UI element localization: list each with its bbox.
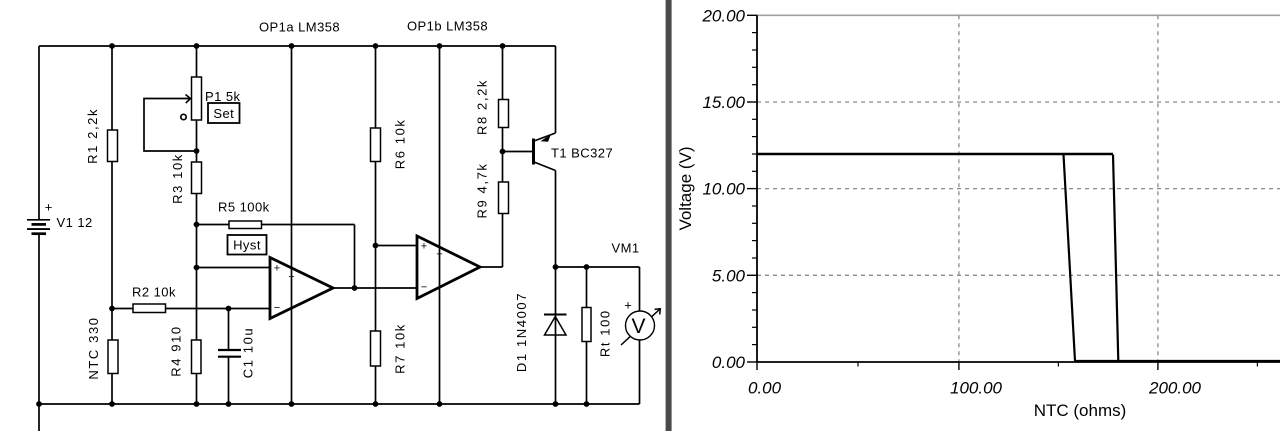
capacitor C1 — [218, 349, 241, 351]
wire OP1b output — [480, 266, 503, 268]
node bottom OP1a supply — [289, 401, 295, 407]
wire R2 minus input — [112, 308, 270, 310]
node top R8 — [500, 43, 506, 49]
trace falling lower — [1064, 155, 1076, 362]
resistor R6 — [371, 128, 381, 162]
node top R1 — [109, 43, 115, 49]
node bottom R7 — [373, 401, 379, 407]
node bottom C1 — [226, 401, 232, 407]
svg-text:R2 10k: R2 10k — [132, 285, 176, 300]
node NTC R2 — [109, 306, 115, 312]
wire OP1b power column — [439, 46, 441, 404]
svg-text:V: V — [631, 315, 645, 338]
wire OP1a power column — [291, 46, 293, 404]
svg-text:D1 1N4007: D1 1N4007 — [514, 292, 529, 372]
resistor R1 — [108, 130, 118, 162]
P1 wiper pin circle — [181, 114, 186, 119]
svg-text:+: + — [436, 249, 442, 261]
wire D1 column — [555, 267, 557, 404]
node bottom D1 — [553, 401, 559, 407]
svg-text:200.00: 200.00 — [1148, 379, 1202, 398]
divider bar — [666, 0, 672, 431]
node top P1 — [194, 43, 200, 49]
node top OP1a supply — [289, 43, 295, 49]
svg-text:Hyst: Hyst — [233, 238, 261, 253]
svg-text:+: + — [45, 200, 53, 215]
y axis — [756, 15, 758, 362]
wire Rt column top — [586, 267, 588, 308]
wire R5 right to riser — [262, 224, 355, 226]
svg-text:R8 2,2k: R8 2,2k — [474, 79, 489, 135]
resistor NTC — [108, 340, 118, 374]
svg-text:−: − — [274, 302, 280, 314]
node top R6 — [373, 43, 379, 49]
node OP1a plus input — [194, 265, 200, 271]
wire VM1 bottom — [639, 340, 641, 404]
wire NTC column — [111, 309, 113, 405]
wire R1 column — [111, 46, 113, 309]
P1 wiper arrowhead — [186, 95, 191, 104]
resistor R5 — [229, 221, 262, 229]
svg-text:NTC (ohms): NTC (ohms) — [1034, 401, 1127, 420]
svg-text:5.00: 5.00 — [712, 266, 746, 285]
resistor R3 — [192, 162, 202, 194]
node P1 wiper R3 — [194, 148, 200, 154]
y minor ticks — [752, 33, 757, 345]
y major ticks — [747, 15, 757, 362]
wire output node rail — [556, 266, 640, 268]
node bottom left — [36, 401, 42, 407]
op-amp OP1a — [270, 258, 333, 319]
trace flat 12V — [758, 153, 1114, 156]
wire left rail lower — [38, 234, 40, 405]
node collector D1 — [553, 264, 559, 270]
svg-text:10.00: 10.00 — [702, 180, 745, 199]
resistor R4 — [192, 340, 202, 374]
trace falling upper — [1113, 155, 1118, 362]
svg-text:VM1: VM1 — [612, 241, 640, 256]
x axis — [757, 361, 1280, 363]
gridline 20V solid — [757, 14, 1280, 16]
wire OP1a output — [333, 287, 417, 289]
resistor R8 — [499, 100, 509, 128]
svg-text:+: + — [421, 241, 427, 253]
svg-text:+: + — [274, 263, 280, 275]
op-amp OP1b — [417, 236, 480, 299]
svg-text:100.00: 100.00 — [950, 379, 1003, 398]
svg-text:R7 10k: R7 10k — [393, 323, 408, 374]
svg-text:T1 BC327: T1 BC327 — [551, 146, 613, 161]
resistor R2 — [133, 304, 166, 313]
chart — [676, 6, 1280, 420]
svg-text:+: + — [624, 298, 632, 313]
gridline 10V dashed — [757, 188, 1280, 190]
wire R5 riser — [354, 225, 356, 289]
Set box — [208, 103, 240, 123]
svg-text:Rt 100: Rt 100 — [598, 309, 613, 357]
wire R5 left — [197, 224, 230, 226]
node bottom NTC — [109, 401, 115, 407]
svg-text:R1 2,2k: R1 2,2k — [85, 108, 100, 164]
svg-text:R5 100k: R5 100k — [218, 200, 270, 215]
wire R8 column — [502, 46, 504, 182]
svg-text:P1 5k: P1 5k — [205, 89, 241, 104]
svg-text:Set: Set — [213, 106, 234, 121]
wire T1 collector down — [555, 171, 557, 268]
svg-text:0.00: 0.00 — [748, 379, 782, 398]
trace flat 0V — [1075, 360, 1280, 362]
wire P1 top — [196, 46, 198, 78]
wire bottom-left tail — [38, 404, 40, 431]
wire bottom rail — [39, 403, 640, 405]
diode D1 — [544, 315, 567, 336]
wire C1 top — [228, 309, 230, 350]
node top OP1b supply — [437, 43, 443, 49]
node bottom OP1b supply — [437, 401, 443, 407]
wire plus node down to R4 — [196, 268, 198, 341]
wire C1 bottom — [228, 358, 230, 405]
svg-text:R9 4,7k: R9 4,7k — [474, 162, 489, 218]
node C1 minus wire — [226, 306, 232, 312]
node bottom Rt — [584, 401, 590, 407]
wire OP1a plus input — [197, 267, 271, 269]
wire T1 base — [503, 151, 533, 153]
gridline 5V dashed — [757, 274, 1280, 276]
wire R3 to R5 node — [196, 194, 198, 225]
resistor Rt — [582, 308, 591, 342]
node T1 base — [500, 149, 506, 155]
x major ticks — [757, 362, 1158, 370]
wire P1 to R3 — [196, 120, 198, 162]
wire Rt column bottom — [586, 342, 588, 405]
potentiometer P1 — [192, 77, 202, 120]
resistor R9 — [499, 182, 509, 214]
transistor T1 — [534, 133, 556, 171]
node bottom R4 — [194, 401, 200, 407]
node R3 R5 — [194, 222, 200, 228]
svg-text:20.00: 20.00 — [701, 6, 745, 25]
svg-text:OP1b LM358: OP1b LM358 — [407, 19, 488, 34]
gridline 100ohm dashed — [958, 15, 960, 362]
svg-text:R3 10k: R3 10k — [170, 153, 185, 204]
wire top rail — [39, 45, 556, 47]
resistor R7 — [371, 331, 381, 366]
node Rt top — [584, 264, 590, 270]
wire T1 emitter to top rail — [555, 46, 557, 133]
svg-text:Voltage (V): Voltage (V) — [676, 146, 695, 230]
voltmeter VM1 — [621, 298, 660, 346]
svg-text:OP1a LM358: OP1a LM358 — [259, 20, 340, 35]
gridline 200ohm dashed — [1157, 15, 1159, 362]
wire R6 R7 column — [375, 46, 377, 404]
Hyst box — [228, 235, 267, 255]
wire R4 to bottom rail — [196, 374, 198, 405]
svg-text:R6 10k: R6 10k — [393, 119, 408, 170]
x minor ticks — [858, 362, 1257, 367]
wire OP1b plus input — [376, 245, 418, 247]
svg-text:0.00: 0.00 — [712, 353, 746, 372]
svg-text:V1 12: V1 12 — [57, 215, 93, 230]
gridline 15V dashed — [757, 101, 1280, 103]
wire P1 wiper loop — [144, 99, 197, 152]
wire left rail upper — [38, 46, 40, 220]
svg-text:NTC 330: NTC 330 — [86, 316, 101, 379]
svg-text:C1 10u: C1 10u — [241, 327, 256, 379]
node R5 output — [352, 285, 358, 291]
svg-text:−: − — [421, 282, 427, 294]
svg-text:R4 910: R4 910 — [169, 325, 184, 377]
battery V1 — [27, 200, 52, 234]
wire OP1b output riser to R9 — [502, 214, 504, 268]
wire R5 node to plus input — [196, 225, 198, 268]
node OP1b plus input — [373, 243, 379, 249]
wire VM1 top — [639, 267, 641, 311]
svg-text:15.00: 15.00 — [702, 93, 745, 112]
svg-text:+: + — [288, 271, 294, 283]
